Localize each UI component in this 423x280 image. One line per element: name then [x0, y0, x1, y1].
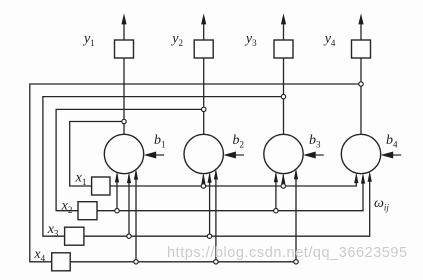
svg-text:b3: b3 — [309, 133, 321, 150]
output arrow y1 — [121, 13, 126, 40]
wire x3 into N1 — [128, 175, 130, 237]
output arrow y4 — [358, 13, 363, 40]
node x4-N3 — [294, 260, 298, 264]
svg-text:y3: y3 — [244, 32, 257, 49]
input delay box X1 — [92, 177, 110, 195]
node x4-N1 — [134, 260, 138, 264]
wire output column 3 — [283, 58, 285, 134]
svg-text:x4: x4 — [33, 247, 45, 264]
svg-text:x3: x3 — [47, 222, 59, 239]
wire feedback y1 to x1 — [70, 122, 124, 187]
input delay box X3 — [65, 227, 84, 245]
wire x4 into N3 — [295, 171, 297, 262]
arrow x4 into N3 — [294, 169, 298, 180]
svg-text:b4: b4 — [386, 133, 398, 150]
wire feedback y4 to x4 — [30, 84, 361, 262]
node x1-N2 — [201, 184, 205, 188]
node tap y2 — [202, 107, 206, 111]
wire bus x3 — [84, 174, 370, 237]
node x2-N3 — [274, 209, 278, 213]
wire output column 1 — [123, 58, 125, 134]
neuron N2 — [184, 134, 223, 173]
arrow x2 into N3 — [274, 172, 278, 183]
wire bus x2 — [97, 176, 363, 211]
arrow x1 into N3 — [281, 173, 285, 184]
arrow x3 into N4 — [368, 171, 372, 182]
output delay box D1 — [115, 40, 134, 58]
arrow x3 into N1 — [127, 173, 131, 184]
svg-text:ωij: ωij — [374, 196, 389, 213]
node tap y4 — [359, 82, 363, 86]
arrow x1 into N4 — [354, 173, 358, 184]
output delay box D2 — [194, 40, 213, 58]
wire x1 into N2 — [202, 175, 204, 186]
wire x2 into N1 — [116, 174, 118, 211]
wire bus x4 — [70, 261, 296, 263]
node x1-N3 — [281, 184, 285, 188]
input delay box X4 — [52, 253, 70, 271]
neuron N3 — [264, 134, 303, 173]
bias arrow b2 — [223, 152, 244, 159]
wire x3 into N2 — [209, 174, 211, 236]
arrow x1 into N2 — [201, 173, 205, 184]
wire x4 into N2 — [215, 171, 217, 262]
node x2-N1 — [115, 209, 119, 213]
output delay box D4 — [352, 40, 371, 58]
arrow x3 into N2 — [208, 172, 212, 183]
svg-text:y2: y2 — [170, 32, 183, 49]
svg-text:y4: y4 — [323, 32, 336, 49]
svg-text:b1: b1 — [154, 133, 166, 150]
wire bus x1 — [110, 175, 356, 186]
bias arrow b3 — [303, 152, 324, 159]
node x4-N2 — [214, 260, 218, 264]
svg-text:y1: y1 — [82, 32, 95, 49]
wire x1 into N3 — [282, 175, 284, 186]
output delay box D3 — [274, 40, 293, 58]
wire x4 into N1 — [135, 171, 137, 262]
node x3-N2 — [207, 234, 211, 238]
bias arrow b1 — [144, 152, 165, 159]
svg-text:https://blog.csdn.net/qq_36623: https://blog.csdn.net/qq_36623595 — [167, 245, 408, 261]
wire feedback y2 to x2 — [56, 109, 204, 210]
node tap y1 — [122, 119, 126, 123]
neuron N4 — [341, 134, 380, 173]
arrow x2 into N1 — [115, 172, 119, 183]
wire x2 into N3 — [275, 174, 277, 211]
svg-text:b2: b2 — [233, 133, 245, 150]
wire output column 2 — [203, 58, 205, 134]
node tap y3 — [281, 94, 285, 98]
svg-text:x1: x1 — [75, 171, 87, 188]
svg-text:x2: x2 — [61, 199, 73, 216]
arrow x4 into N1 — [134, 169, 138, 180]
wire output column 4 — [360, 58, 362, 134]
node x3-N1 — [127, 234, 131, 238]
arrow x4 into N2 — [214, 169, 218, 180]
bias arrow b4 — [381, 152, 402, 159]
output arrow y2 — [201, 13, 206, 40]
output arrow y3 — [281, 13, 286, 40]
arrow x2 into N4 — [361, 173, 365, 184]
neuron N1 — [104, 134, 143, 173]
wire feedback y3 to x3 — [43, 97, 284, 237]
input delay box X2 — [78, 202, 97, 220]
